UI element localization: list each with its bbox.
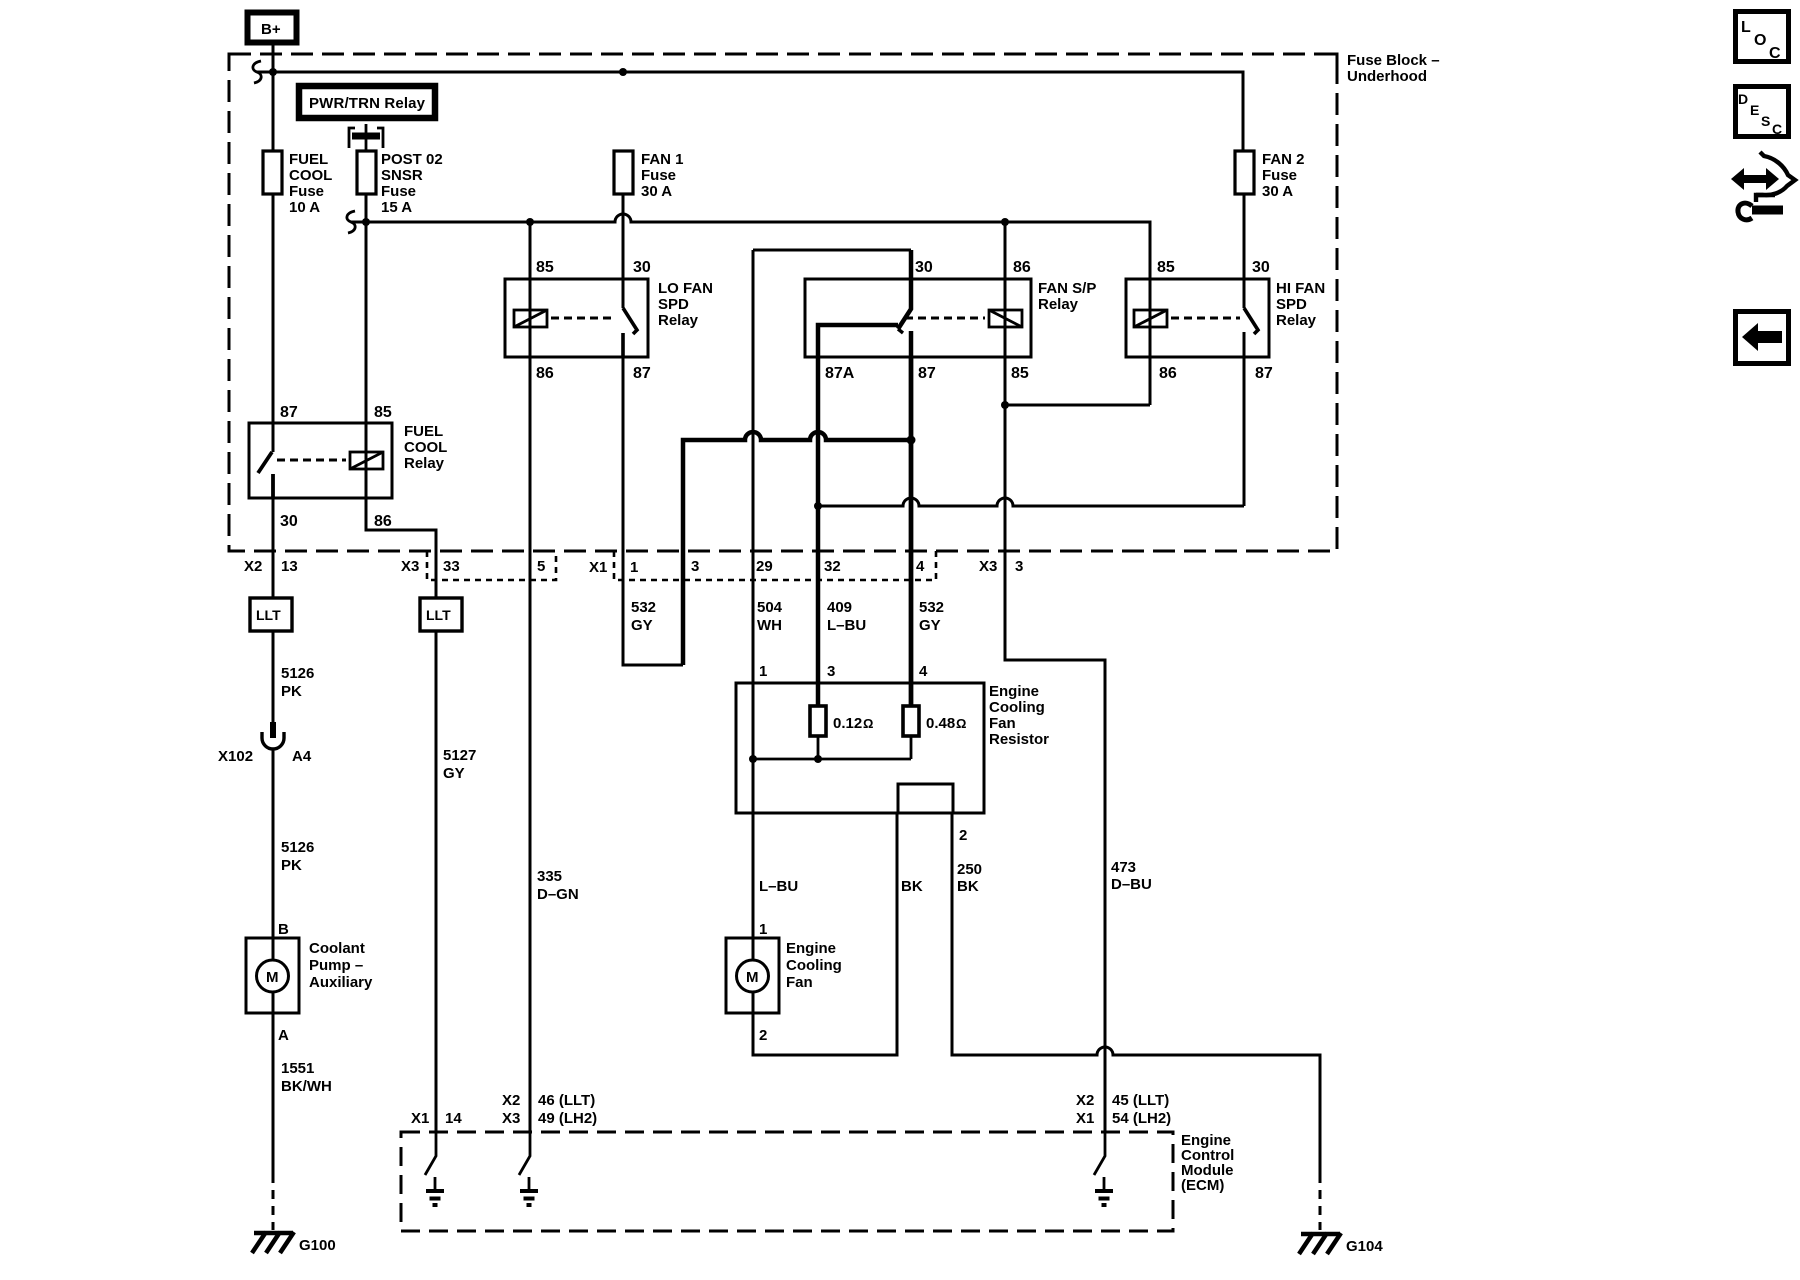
svg-text:1: 1: [759, 663, 767, 680]
svg-text:FAN S/P: FAN S/P: [1038, 280, 1096, 297]
svg-text:SPD: SPD: [1276, 296, 1307, 313]
K1 coil-contact dashed link: [551, 317, 616, 320]
K1 switch blade pin30 to 87: [623, 308, 637, 356]
ECM pin labels X2 46 LLT / X3 49 LH2: [502, 1092, 597, 1127]
svg-text:FAN 2: FAN 2: [1262, 151, 1305, 168]
svg-text:Fan: Fan: [989, 715, 1016, 732]
svg-text:86: 86: [536, 365, 554, 382]
resistor pin 2 tab: [898, 784, 953, 813]
connector strip labels X3 33 5: [401, 558, 545, 575]
K2 feed corner to pin 30: [753, 249, 911, 252]
svg-text:Fuse: Fuse: [381, 183, 416, 200]
wire FAN2 fuse to HI FAN pin 30: [1243, 194, 1246, 308]
svg-text:(ECM): (ECM): [1181, 1177, 1224, 1194]
Engine Cooling Fan Resistor box: [736, 663, 1049, 844]
svg-text:COOL: COOL: [289, 167, 332, 184]
dashed ground lead G104: [1319, 1174, 1322, 1230]
svg-text:L–BU: L–BU: [827, 617, 866, 634]
wire POST02 fuse down to FUEL COOL relay coil pin 85: [365, 194, 368, 530]
label 473 D-BU: [1111, 859, 1152, 893]
ECM internal driver to ground for 473 D-BU: [1094, 1132, 1113, 1205]
svg-text:GY: GY: [919, 617, 941, 634]
K2 blade foot: [898, 329, 903, 333]
wire label 504 WH: [757, 599, 783, 634]
motor M1 Coolant Pump Auxiliary: [246, 938, 373, 1013]
svg-text:E: E: [1750, 102, 1759, 118]
svg-text:C: C: [1772, 121, 1782, 137]
svg-text:Coolant: Coolant: [309, 940, 365, 957]
svg-text:GY: GY: [631, 617, 653, 634]
splice hook at left end of bus 2: [347, 211, 355, 233]
svg-text:1: 1: [759, 921, 767, 938]
svg-text:D–BU: D–BU: [1111, 876, 1152, 893]
connector strip labels X1 1 3 29 32 4 X3 3: [589, 558, 1023, 576]
svg-text:86: 86: [1159, 365, 1177, 382]
heavy wire 532 GY up-over to resistor pin 4, hops over two wires: [683, 432, 911, 665]
svg-text:COOL: COOL: [404, 439, 447, 456]
svg-text:X3: X3: [979, 558, 997, 575]
dashed ground lead G100: [272, 1174, 275, 1230]
svg-text:B+: B+: [261, 21, 281, 38]
svg-text:Engine: Engine: [786, 940, 836, 957]
svg-text:G104: G104: [1346, 1238, 1383, 1255]
wire 1551 BK/WH to ground: [272, 1013, 275, 1174]
K2 coil-contact dashed link: [905, 317, 985, 320]
svg-text:X2: X2: [244, 558, 262, 575]
node junction bus2 FAN S/P coil: [1001, 218, 1009, 226]
svg-text:Cooling: Cooling: [786, 957, 842, 974]
svg-text:C: C: [1769, 45, 1781, 62]
svg-text:54 (LH2): 54 (LH2): [1112, 1110, 1171, 1127]
wire label 532 GY (X1-1): [631, 599, 656, 634]
svg-text:SNSR: SNSR: [381, 167, 423, 184]
svg-text:Ω: Ω: [956, 716, 966, 731]
svg-text:0.48: 0.48: [926, 715, 955, 732]
svg-text:LLT: LLT: [256, 607, 281, 623]
resistor internal rail: [753, 736, 911, 759]
K2 coil: [1004, 222, 1007, 405]
svg-text:85: 85: [1157, 259, 1175, 276]
svg-text:FAN 1: FAN 1: [641, 151, 684, 168]
svg-text:Auxiliary: Auxiliary: [309, 974, 373, 991]
fuse F4 FAN 2 30A: [1235, 151, 1305, 200]
svg-text:FUEL: FUEL: [404, 423, 443, 440]
svg-text:Relay: Relay: [1276, 312, 1317, 329]
relay K3 HI FAN SPD Relay: [1126, 259, 1325, 405]
wire label 532 GY (X1-4): [919, 599, 944, 634]
svg-text:L–BU: L–BU: [759, 878, 798, 895]
connector X102 A4 pin and socket: [218, 722, 312, 765]
K4 switch blade pin 87 to 30: [258, 452, 273, 498]
ECM internal driver to ground for 5127 GY: [425, 1132, 444, 1205]
resistor element 0.12 ohm: [810, 706, 826, 736]
relay K2 FAN S/P Relay: [753, 222, 1096, 706]
relay K1 LO FAN SPD Relay: [505, 222, 713, 382]
label 5126 PK lower: [281, 839, 314, 874]
wire 5126 PK lower: [272, 748, 275, 938]
wire label 409 L-BU: [827, 599, 866, 634]
svg-text:X2: X2: [502, 1092, 520, 1109]
wire LO FAN 87 to resistor feed 532 GY U-jog: [623, 356, 683, 665]
svg-text:87A: 87A: [825, 365, 855, 382]
svg-text:Resistor: Resistor: [989, 731, 1049, 748]
svg-text:Relay: Relay: [1038, 296, 1079, 313]
svg-text:Relay: Relay: [658, 312, 699, 329]
svg-text:S: S: [1761, 113, 1770, 129]
wire 335 D-GN LO FAN 86 to ECM: [529, 356, 532, 1132]
node junction B+ and top bus: [269, 68, 277, 76]
node junction bus2 LO FAN coil: [526, 218, 534, 226]
svg-text:X3: X3: [502, 1110, 520, 1127]
wire FUEL COOL fuse down to relay pin 87: [272, 194, 275, 452]
label Fuse Block - Underhood: [1347, 52, 1440, 85]
svg-text:Fuse: Fuse: [1262, 167, 1297, 184]
svg-text:FUEL: FUEL: [289, 151, 328, 168]
svg-text:X2: X2: [1076, 1092, 1094, 1109]
ECM pin labels X2 45 LLT / X1 54 LH2: [1076, 1092, 1171, 1127]
svg-text:46 (LLT): 46 (LLT): [538, 1092, 595, 1109]
svg-text:POST 02: POST 02: [381, 151, 443, 168]
motor M2 Engine Cooling Fan: [726, 938, 842, 1013]
svg-text:Engine: Engine: [989, 683, 1039, 700]
svg-text:85: 85: [1011, 365, 1029, 382]
svg-text:O: O: [1754, 32, 1766, 49]
svg-text:PK: PK: [281, 857, 302, 874]
svg-text:LO FAN: LO FAN: [658, 280, 713, 297]
svg-text:86: 86: [1013, 259, 1031, 276]
svg-text:473: 473: [1111, 859, 1136, 876]
K2 contact 87A heavy: [818, 325, 898, 706]
svg-text:86: 86: [374, 513, 392, 530]
K3 coil: [1149, 308, 1152, 405]
svg-text:5126: 5126: [281, 665, 314, 682]
svg-text:87: 87: [280, 404, 298, 421]
svg-text:30: 30: [1252, 259, 1270, 276]
svg-text:Relay: Relay: [404, 455, 445, 472]
label 5126 PK: [281, 665, 314, 700]
svg-text:SPD: SPD: [658, 296, 689, 313]
svg-text:335: 335: [537, 868, 562, 885]
connector X3 dotted outline: [427, 551, 556, 580]
svg-text:LLT: LLT: [426, 607, 451, 623]
svg-text:33: 33: [443, 558, 460, 575]
K1 coil: [529, 222, 532, 356]
bus bar 2 from POST 02 fuse feeding relay coils, hops over FAN1 wire: [351, 214, 1150, 308]
svg-text:85: 85: [536, 259, 554, 276]
svg-text:15 A: 15 A: [381, 199, 412, 216]
B+ terminal: [248, 13, 297, 43]
ECM internal driver to ground for 335 D-GN: [519, 1132, 538, 1205]
label 335 D-GN: [537, 868, 579, 903]
K2 pin 87 heavy down: [909, 331, 914, 706]
node junction 409 L-BU and HI FAN 87: [814, 502, 822, 510]
svg-text:Pump –: Pump –: [309, 957, 363, 974]
fuse block underhood dashed border: [229, 54, 1337, 551]
wire 5127 GY FUEL COOL 86 to ECM: [435, 631, 438, 1132]
ECM dashed box: [401, 1132, 1173, 1231]
svg-text:HI FAN: HI FAN: [1276, 280, 1325, 297]
heavy wire FAN S/P 87 to resistor pin 4: [909, 356, 914, 706]
connector strip labels X2 13: [244, 558, 298, 575]
icon box DESC: [1736, 87, 1789, 138]
svg-text:29: 29: [756, 558, 773, 575]
svg-text:32: 32: [824, 558, 841, 575]
ground G100: [252, 1232, 336, 1254]
label 1551 BK/WH: [281, 1060, 332, 1095]
svg-text:Ω: Ω: [863, 716, 873, 731]
K4 coil-contact dashed link: [277, 459, 346, 462]
K3 coil-contact dashed link: [1171, 317, 1240, 320]
svg-text:M: M: [266, 969, 279, 986]
icon vehicle location pointer: [1731, 152, 1795, 220]
svg-text:D: D: [1738, 91, 1748, 107]
connector clip symbol above POST 02 fuse: [349, 124, 383, 151]
svg-text:A4: A4: [292, 748, 312, 765]
svg-text:87: 87: [1255, 365, 1273, 382]
svg-text:10 A: 10 A: [289, 199, 320, 216]
wire HI FAN pin 87 down and left to 409 L-BU, hops over two wires: [818, 332, 1244, 506]
svg-text:X102: X102: [218, 748, 253, 765]
svg-text:M: M: [746, 969, 759, 986]
svg-text:532: 532: [919, 599, 944, 616]
icon box back arrow: [1736, 312, 1789, 364]
splice hook at left end of top bus: [253, 61, 261, 83]
svg-text:1: 1: [630, 559, 638, 576]
svg-text:B: B: [278, 921, 289, 938]
svg-text:0.12: 0.12: [833, 715, 862, 732]
svg-text:30: 30: [280, 513, 298, 530]
inline connector LLT on X2-13 wire: [250, 598, 292, 631]
bus bar from B+ along top of fuse block: [257, 72, 1243, 151]
svg-text:3: 3: [827, 663, 835, 680]
svg-text:X3: X3: [401, 558, 419, 575]
svg-text:Underhood: Underhood: [1347, 68, 1427, 85]
svg-text:BK: BK: [957, 878, 979, 895]
svg-text:4: 4: [916, 558, 925, 575]
wire FAN1 fuse to LO FAN relay pin 30: [622, 194, 625, 308]
svg-text:1551: 1551: [281, 1060, 314, 1077]
node junction 532 GY joins FAN S/P 87: [907, 436, 916, 445]
wire HI FAN 86 link to FAN S/P 85: [1005, 404, 1150, 407]
svg-text:Fan: Fan: [786, 974, 813, 991]
wire 250 BK resistor pin 2 to G104, hops over 473 D-BU: [952, 813, 1320, 1174]
svg-text:A: A: [278, 1027, 289, 1044]
node junction FAN S/P 85 coil and link: [1001, 401, 1009, 409]
svg-text:14: 14: [445, 1110, 462, 1127]
svg-text:30 A: 30 A: [1262, 183, 1293, 200]
svg-text:13: 13: [281, 558, 298, 575]
relay K4 FUEL COOL Relay: [249, 404, 447, 530]
svg-text:X1: X1: [411, 1110, 429, 1127]
wire B+ feed down to fuse: [272, 43, 275, 151]
svg-text:WH: WH: [757, 617, 782, 634]
label 5127 GY: [443, 747, 476, 782]
svg-text:X1: X1: [589, 559, 607, 576]
ground G104: [1299, 1233, 1383, 1255]
K3 switch blade: [1244, 308, 1258, 334]
svg-text:409: 409: [827, 599, 852, 616]
fuse F3 FAN 1 30A: [614, 151, 684, 200]
svg-text:30: 30: [915, 259, 933, 276]
svg-text:49 (LH2): 49 (LH2): [538, 1110, 597, 1127]
label 250 BK: [957, 861, 982, 895]
svg-text:30: 30: [633, 259, 651, 276]
K2 switch blade heavy pin 30: [898, 250, 911, 329]
ECM pin labels X1 14: [411, 1110, 462, 1127]
svg-text:PWR/TRN Relay: PWR/TRN Relay: [309, 95, 426, 112]
svg-text:PK: PK: [281, 683, 302, 700]
K4 coil: [350, 452, 383, 469]
svg-text:Cooling: Cooling: [989, 699, 1045, 716]
wire FUEL COOL 30 down to X2-13: [272, 498, 275, 598]
wire L-BU resistor pin1 to fan motor: [759, 878, 798, 938]
fuse F1 FUEL COOL 10A: [263, 151, 332, 216]
node junction bus2 POST02 fuse: [362, 218, 370, 226]
svg-text:BK/WH: BK/WH: [281, 1078, 332, 1095]
wire 473 D-BU FAN S/P coil low side to ECM: [1005, 405, 1105, 1132]
icon box LOC: [1736, 12, 1789, 63]
wire fan motor return BK up to resistor: [753, 813, 897, 1055]
svg-text:504: 504: [757, 599, 783, 616]
svg-text:45 (LLT): 45 (LLT): [1112, 1092, 1169, 1109]
PWR/TRN Relay label box: [299, 86, 435, 118]
svg-text:BK: BK: [901, 878, 923, 895]
svg-text:250: 250: [957, 861, 982, 878]
svg-text:5127: 5127: [443, 747, 476, 764]
wire 5126 PK upper: [272, 631, 275, 724]
svg-text:30 A: 30 A: [641, 183, 672, 200]
svg-text:87: 87: [633, 365, 651, 382]
connector X1 dotted outline: [614, 551, 936, 580]
svg-text:2: 2: [959, 827, 967, 844]
svg-text:Fuse Block –: Fuse Block –: [1347, 52, 1440, 69]
svg-text:3: 3: [1015, 558, 1023, 575]
inline connector LLT on X3-33 wire: [420, 598, 462, 631]
resistor element 0.48 ohm: [903, 706, 919, 736]
wire FUEL COOL 86 jog to X3-33: [366, 469, 436, 598]
svg-text:G100: G100: [299, 1237, 336, 1254]
wire 504 WH FAN S/P 30 feed down to resistor pin 1 and Engine Cooling Fan: [752, 250, 755, 938]
fuse F2 POST 02 SNSR 15A: [357, 151, 443, 216]
svg-text:5126: 5126: [281, 839, 314, 856]
svg-text:87: 87: [918, 365, 936, 382]
svg-text:D–GN: D–GN: [537, 886, 579, 903]
svg-text:GY: GY: [443, 765, 465, 782]
svg-text:3: 3: [691, 558, 699, 575]
svg-text:85: 85: [374, 404, 392, 421]
node junction top bus and FAN 1 fuse: [619, 68, 627, 76]
svg-text:X1: X1: [1076, 1110, 1094, 1127]
svg-text:4: 4: [919, 663, 928, 680]
label Engine Control Module (ECM): [1181, 1132, 1234, 1194]
svg-text:2: 2: [759, 1027, 767, 1044]
svg-text:Fuse: Fuse: [641, 167, 676, 184]
svg-text:Fuse: Fuse: [289, 183, 324, 200]
svg-text:L: L: [1741, 19, 1751, 36]
svg-text:532: 532: [631, 599, 656, 616]
svg-text:5: 5: [537, 558, 545, 575]
